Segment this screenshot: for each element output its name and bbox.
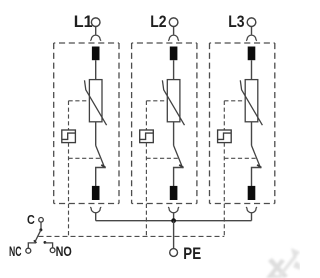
terminal L1: [91, 18, 100, 27]
NO contact point: [44, 241, 47, 244]
svg-text:NO: NO: [56, 244, 72, 259]
terminal NO: [50, 248, 55, 253]
wire: junction to PE terminal: [173, 221, 175, 249]
terminal C: [39, 218, 44, 223]
svg-text:L3: L3: [228, 12, 244, 31]
SPD module 2: [132, 27, 197, 237]
svg-text:PE: PE: [183, 245, 201, 263]
PE bus wire: [96, 220, 252, 222]
watermark: [266, 248, 300, 278]
junction: [171, 218, 176, 223]
NC contact lead: [28, 243, 36, 248]
svg-text:NC: NC: [9, 244, 22, 259]
changeover switch blade: [35, 230, 41, 242]
svg-text:L2: L2: [150, 12, 166, 31]
NO contact lead: [45, 243, 53, 248]
wire: C to pivot: [40, 222, 42, 230]
SPD module 3: [210, 27, 275, 237]
SPD module 1: [54, 27, 119, 237]
remote signalling linkage (dashed bus): [39, 235, 225, 237]
pivot junction: [39, 228, 42, 231]
terminal L3: [247, 18, 256, 27]
svg-text:C: C: [27, 212, 35, 227]
changeover blade barb: [34, 240, 37, 243]
terminal L2: [169, 18, 178, 27]
terminal NC: [26, 248, 31, 253]
terminal PE: [170, 249, 178, 257]
svg-text:L1: L1: [74, 12, 93, 31]
